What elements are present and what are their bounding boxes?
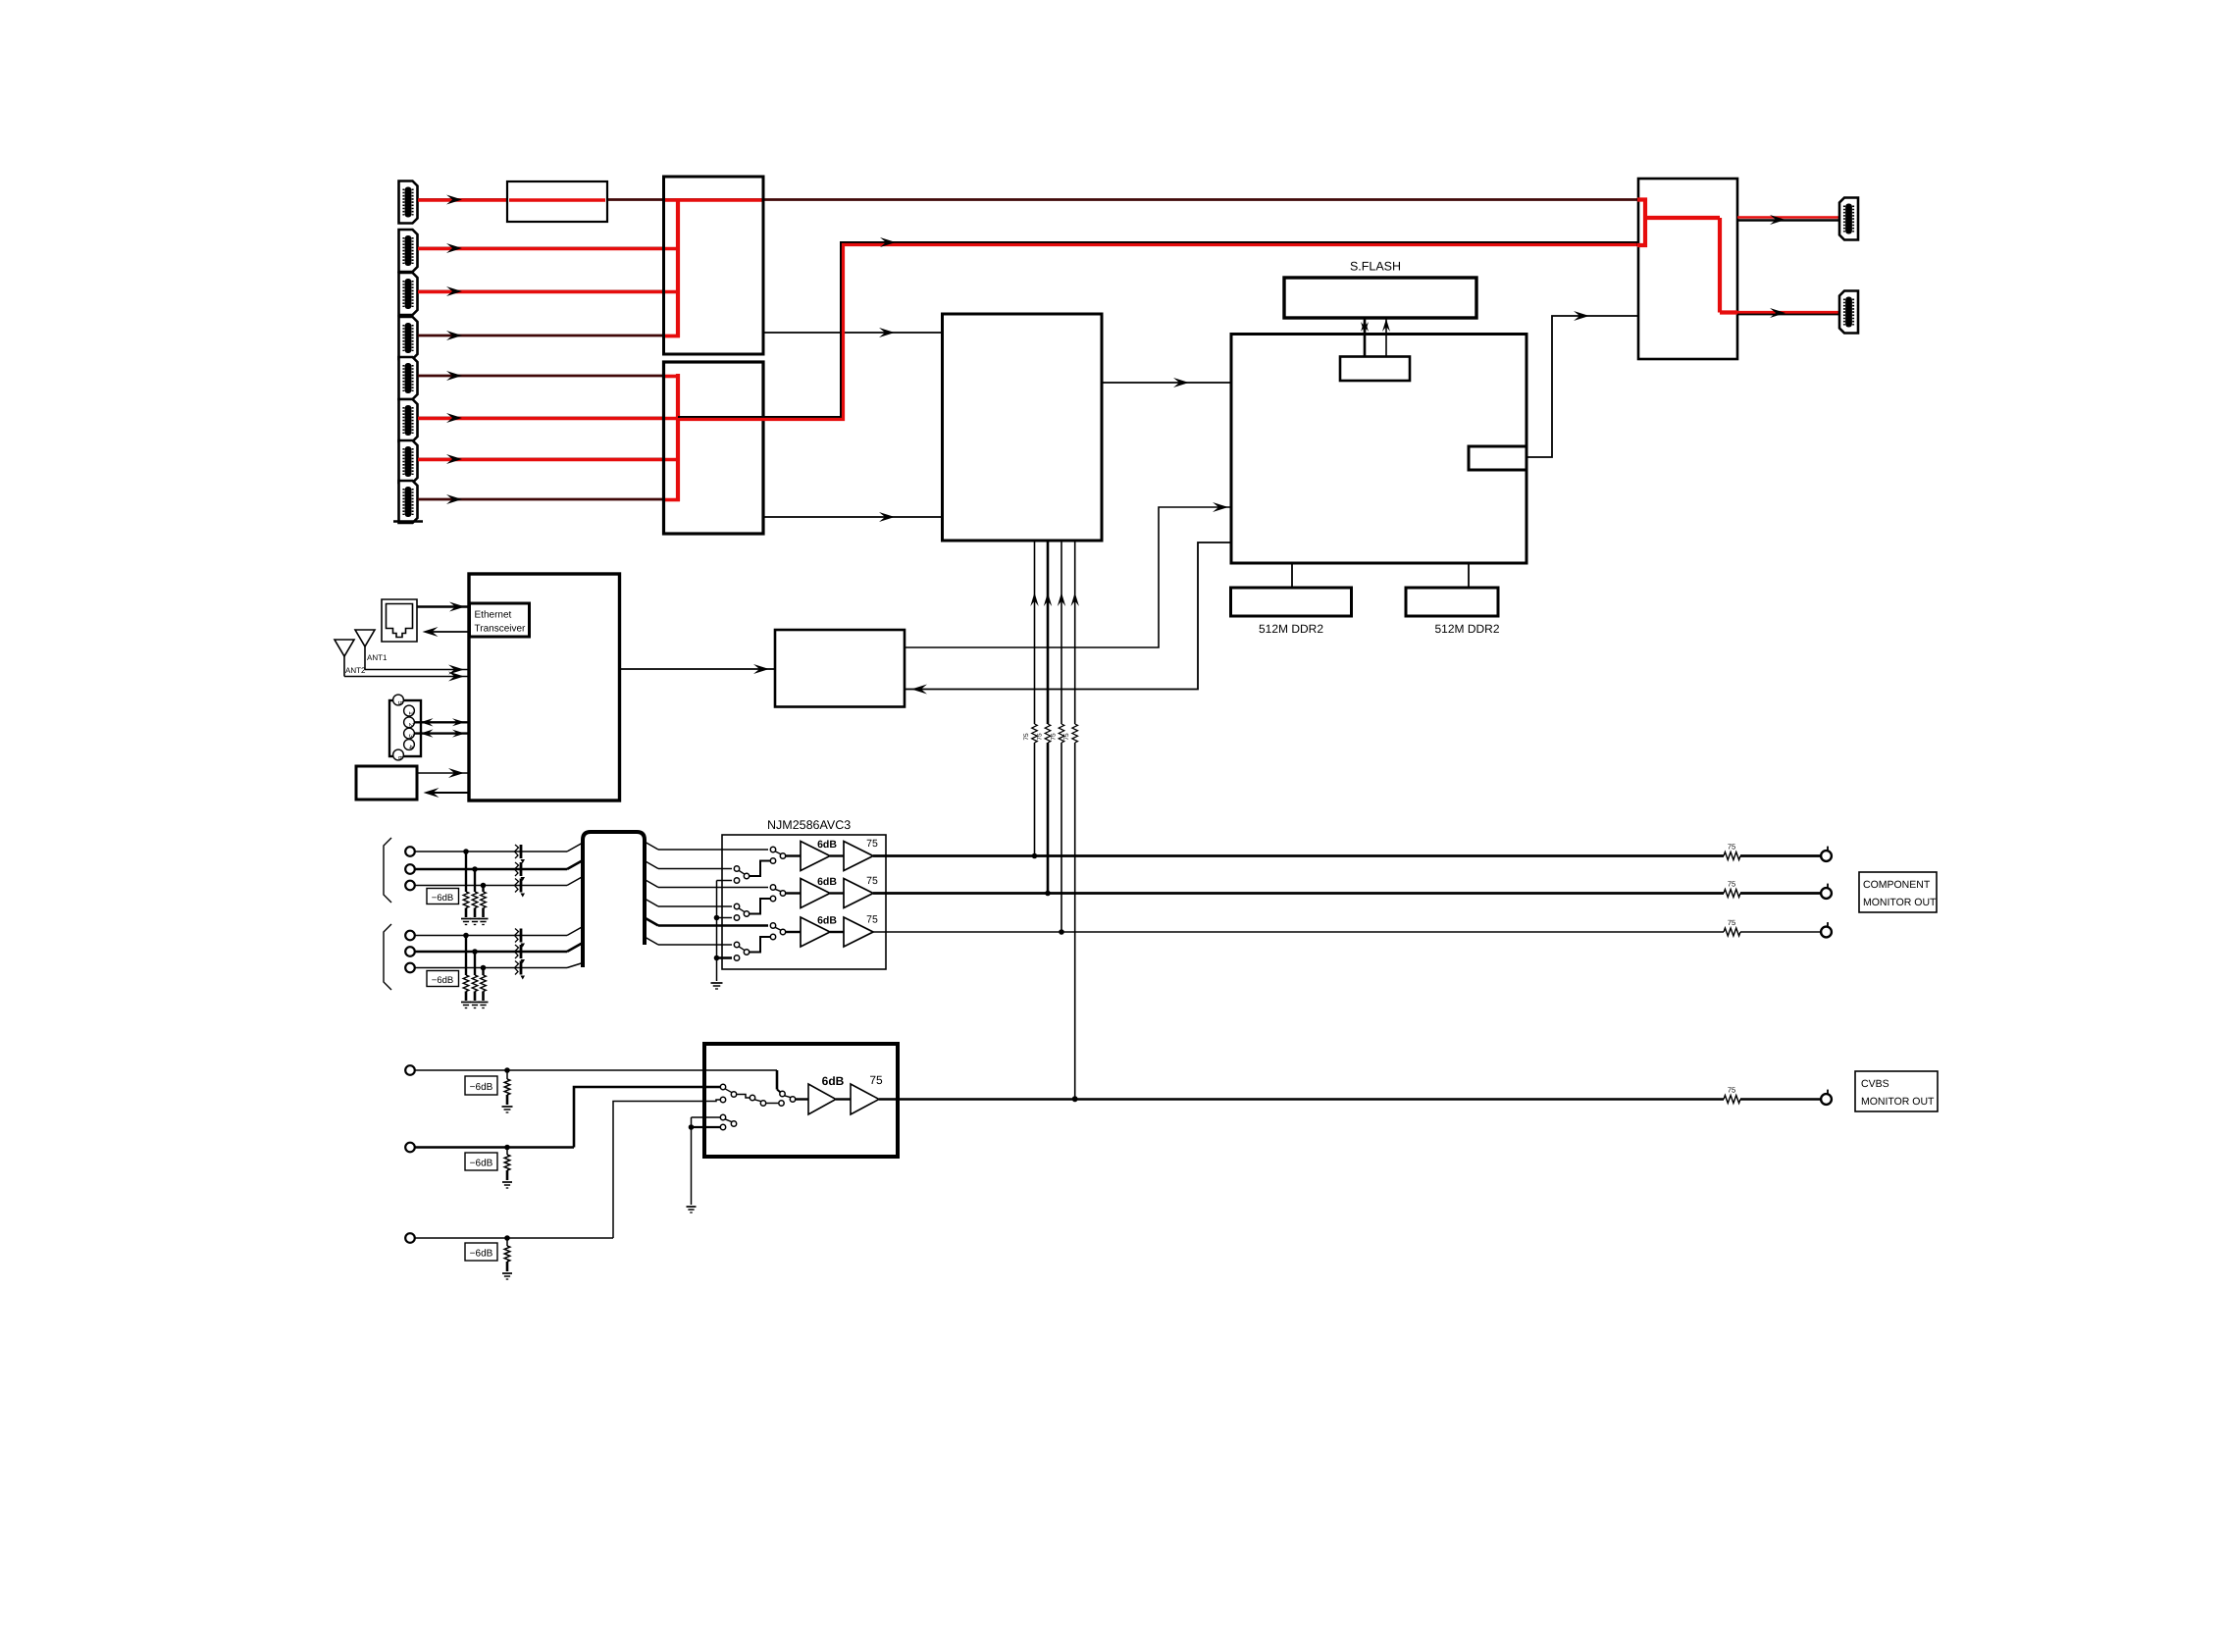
wire U1 out to U3 — [763, 328, 942, 337]
svg-text:75: 75 — [866, 838, 878, 850]
box -6dB CVBS-B — [465, 1153, 497, 1170]
connector HDMI-IN2 — [399, 230, 418, 272]
svg-text:75: 75 — [1063, 733, 1070, 741]
box -6dB CVBS-C — [465, 1243, 497, 1261]
wire U2 out red — [678, 237, 1638, 420]
svg-text:75: 75 — [866, 875, 878, 887]
wire SoC-DDR2A — [1291, 563, 1293, 588]
wire component monitor out ch3 — [873, 918, 1832, 937]
cable bundle — [583, 832, 645, 967]
label NJM2586AVC3 — [767, 818, 851, 832]
svg-text:MONITOR OUT: MONITOR OUT — [1863, 897, 1937, 908]
svg-text:4: 4 — [407, 746, 414, 749]
box Ethernet Transceiver label — [470, 603, 530, 637]
RCA input component-A ch1 — [405, 843, 583, 925]
svg-text:6dB: 6dB — [817, 915, 837, 927]
wire keypad tx — [417, 768, 469, 778]
amplifier component ch1 — [801, 838, 878, 871]
wire red trunk U1 — [676, 198, 680, 337]
wire switch common ground — [711, 881, 733, 990]
RCA input component-B ch3 — [405, 961, 583, 1008]
svg-text:75: 75 — [1051, 733, 1058, 741]
wire red trunk U2 — [676, 374, 680, 501]
amplifier component ch3 — [801, 914, 878, 948]
wire DIN pin3 — [414, 729, 469, 737]
svg-text:75: 75 — [1728, 880, 1735, 889]
connector HDMI-IN1 — [399, 181, 418, 224]
svg-text:CVBS: CVBS — [1861, 1078, 1889, 1090]
wire red U5 bracket — [1637, 200, 1737, 313]
wire bundle exit 1 — [645, 842, 768, 850]
box keypad — [356, 766, 417, 800]
wire keypad rx — [424, 788, 470, 798]
connector HDMI-IN5 — [399, 357, 418, 399]
svg-text:75: 75 — [1037, 733, 1044, 741]
connector HDMI-IN6 — [399, 399, 418, 441]
RCA input component-B ch2 — [405, 943, 583, 1008]
RCA input CVBS-A — [405, 1065, 777, 1112]
block HDMI TX U5 — [1638, 179, 1737, 359]
wire HDMI-IN8 to switch — [418, 494, 680, 504]
svg-text:Transceiver: Transceiver — [475, 624, 527, 635]
wire bundle exit 2 — [645, 861, 732, 869]
connector HDMI-IN7 — [399, 440, 418, 483]
svg-text:6dB: 6dB — [817, 839, 837, 851]
block SoC U4 — [1231, 335, 1526, 564]
box CVBS MONITOR OUT — [1855, 1071, 1938, 1111]
antenna ANT2 — [335, 640, 366, 677]
box COMPONENT MONITOR OUT — [1859, 872, 1937, 912]
box SPI controller — [1340, 357, 1410, 382]
box -6dB B — [427, 971, 459, 987]
wire CVBS-A into switch — [777, 1070, 780, 1092]
wire red stub row4 — [664, 335, 680, 337]
svg-text:ANT1: ANT1 — [367, 653, 388, 662]
switch CVBS aux contacts — [687, 1114, 737, 1213]
wire ANT2 — [344, 672, 469, 682]
wire U2 out2 to U3 — [763, 512, 942, 522]
block network module U6 — [469, 574, 620, 800]
wire CVBS monitor out — [879, 1086, 1832, 1105]
wire SoC-SFLASH bus2 — [1382, 318, 1390, 356]
wire HDMI OUT2 — [1737, 308, 1842, 318]
connector DIN remote — [389, 695, 421, 760]
box S.FLASH — [1284, 278, 1476, 318]
svg-text:2: 2 — [407, 723, 414, 727]
wire HDMI-IN7 to switch — [418, 454, 678, 464]
wire bundle exit 4 — [645, 899, 732, 906]
svg-text:6dB: 6dB — [817, 876, 837, 888]
svg-text:512M DDR2: 512M DDR2 — [1259, 622, 1323, 636]
wire SoC-DDR2B — [1468, 563, 1470, 588]
wire SoC to U5 — [1526, 311, 1638, 457]
wire HDMI OUT1 — [1737, 215, 1842, 225]
svg-text:75: 75 — [1728, 918, 1735, 927]
svg-text:75: 75 — [869, 1073, 883, 1087]
block NJM2586AVC3 U8 — [722, 835, 886, 969]
wire SoC to U7 — [905, 542, 1231, 695]
block HDMI receiver U3 — [943, 314, 1103, 541]
connector RJ45 — [382, 599, 417, 642]
switch component ch1 — [734, 847, 801, 883]
wire RJ45 rx — [423, 627, 471, 637]
wire ANT1 — [365, 665, 469, 675]
svg-text:MONITOR OUT: MONITOR OUT — [1861, 1096, 1935, 1108]
svg-text:512M DDR2: 512M DDR2 — [1434, 622, 1499, 636]
wire bundle exit 3 — [645, 880, 768, 888]
wire red row1 through EQ — [509, 198, 605, 201]
svg-text:75: 75 — [1023, 733, 1030, 741]
wire component monitor out ch1 — [873, 843, 1832, 861]
connector HDMI-IN4 — [399, 317, 418, 359]
amplifier component ch2 — [801, 875, 878, 908]
wire DIN pin2 — [414, 718, 469, 726]
wire RJ45 tx — [417, 602, 470, 612]
svg-text:−6dB: −6dB — [470, 1249, 493, 1260]
RCA input component-A ch3 — [405, 877, 583, 925]
svg-text:COMPONENT: COMPONENT — [1863, 879, 1931, 891]
svg-text:Ethernet: Ethernet — [475, 610, 512, 621]
connector HDMI-OUT2 — [1839, 291, 1858, 334]
svg-text:−6dB: −6dB — [470, 1082, 493, 1093]
RCA input component-A ch2 — [405, 860, 583, 925]
connector HDMI-OUT1 — [1839, 198, 1858, 240]
connector HDMI-IN8 — [399, 481, 418, 523]
box -6dB CVBS-A — [465, 1076, 497, 1095]
wire video out V1 from U3 — [1023, 541, 1039, 858]
wire bundle exit 6 — [645, 937, 732, 945]
svg-text:75: 75 — [866, 914, 878, 926]
label 512M DDR2 A — [1259, 622, 1323, 636]
wire U3 to U4 — [1102, 378, 1231, 387]
box DDR2-B — [1406, 588, 1498, 616]
wire CVBS-B into switch — [574, 1087, 720, 1148]
wire HDMI-IN2 to switch — [418, 243, 678, 253]
box HDMI TX interface — [1469, 446, 1526, 470]
svg-text:−6dB: −6dB — [432, 893, 453, 903]
RCA input component-B ch1 — [405, 927, 583, 1008]
box -6dB A — [427, 889, 459, 904]
svg-text:5: 5 — [396, 701, 403, 705]
svg-text:−6dB: −6dB — [470, 1159, 493, 1169]
svg-text:S.FLASH: S.FLASH — [1350, 260, 1401, 274]
block bridge U7 — [775, 630, 905, 707]
svg-text:3: 3 — [407, 734, 414, 738]
box DDR2-A — [1231, 588, 1352, 616]
wire HDMI-IN6 to switch — [418, 413, 678, 423]
svg-text:6dB: 6dB — [822, 1074, 845, 1088]
label 512M DDR2 B — [1434, 622, 1499, 636]
wire CVBS-C into switch — [613, 1100, 720, 1238]
wire HDMI-IN3 to switch — [418, 286, 678, 296]
block CVBS switch U9 — [704, 1044, 898, 1157]
block HDMI switch U1 — [664, 177, 764, 354]
wire U6 to U7 — [619, 664, 775, 674]
wire bundle exit 5 — [645, 918, 768, 926]
bracket component group1 — [384, 838, 391, 903]
wire video out V3 from U3 — [1051, 541, 1066, 935]
block HDMI switch U2 — [664, 362, 764, 534]
amplifier CVBS — [808, 1073, 883, 1114]
connector HDMI-IN8 baseline — [393, 520, 423, 522]
svg-text:ANT2: ANT2 — [345, 666, 366, 675]
antenna ANT1 — [355, 630, 388, 670]
switch component ch2 — [734, 885, 801, 920]
box EQ row1 — [507, 181, 607, 222]
wire HDMI-IN1 to switch — [418, 195, 1638, 205]
svg-text:1: 1 — [407, 711, 414, 715]
wire U7 to SoC — [905, 502, 1231, 647]
wire SoC-SFLASH bus1 — [1361, 318, 1369, 356]
bracket component group2 — [384, 924, 391, 990]
wire HDMI-IN4 to switch — [418, 331, 680, 340]
RCA input CVBS-B — [405, 1143, 574, 1188]
connector HDMI-IN3 — [399, 273, 418, 315]
wire HDMI-IN5 to switch — [418, 371, 680, 381]
switch component ch3 — [734, 923, 801, 960]
svg-text:−6dB: −6dB — [432, 975, 453, 986]
RCA input CVBS-C — [405, 1233, 613, 1279]
svg-text:75: 75 — [1728, 843, 1735, 852]
svg-text:NJM2586AVC3: NJM2586AVC3 — [767, 818, 851, 832]
wire component monitor out ch2 — [873, 880, 1832, 899]
wire video out V2 from U3 — [1037, 541, 1053, 896]
svg-text:75: 75 — [1728, 1086, 1735, 1095]
switch CVBS select — [720, 1084, 808, 1106]
label S.FLASH — [1350, 260, 1401, 274]
wire video out V4 from U3 — [1063, 541, 1079, 1102]
svg-text:6: 6 — [396, 756, 403, 760]
